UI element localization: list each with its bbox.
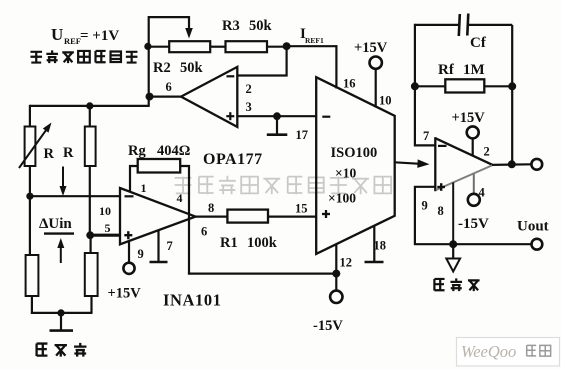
- watermark text 杭州将睿科技有限公司: [175, 176, 392, 194]
- svg-text:6: 6: [201, 225, 207, 239]
- wire pin7 bend: [415, 86, 435, 145]
- terminal output: [531, 159, 542, 170]
- variable resistor arrow: [19, 123, 52, 169]
- ground tick pin7: [150, 261, 168, 264]
- svg-text:ΔUin: ΔUin: [39, 216, 72, 232]
- op-amp OPA177 body: [181, 67, 237, 127]
- node OPA177 output: [146, 93, 154, 101]
- node Rf right junction: [508, 82, 516, 90]
- label pin 4 INA101: [177, 191, 183, 205]
- label +15V INA101: [108, 286, 142, 302]
- U3 minus sign: [438, 145, 447, 147]
- svg-text:INA101: INA101: [163, 291, 222, 310]
- label pin 7 U3: [423, 129, 429, 143]
- svg-text:5: 5: [105, 221, 111, 235]
- resistor R variable body: [25, 127, 36, 167]
- wire bottom rail pin4-pin12: [188, 273, 336, 275]
- label pin 4 U3: [479, 186, 486, 200]
- label pin 16: [343, 77, 356, 91]
- ISO100 output arrow: [395, 159, 430, 168]
- output ground stub: [452, 244, 454, 258]
- svg-text:50k: 50k: [180, 60, 204, 76]
- svg-text:×10: ×10: [335, 166, 356, 181]
- wire left branch lower: [29, 195, 31, 256]
- terminal +15V INA101: [123, 263, 134, 274]
- resistor Rf body: [445, 79, 484, 92]
- svg-text:Uout: Uout: [517, 219, 549, 235]
- wire right branch mid: [89, 166, 91, 236]
- output ground triangle: [446, 259, 460, 272]
- wire to Uout terminal: [453, 243, 532, 245]
- svg-text:100k: 100k: [247, 235, 278, 251]
- ground tick pin18: [365, 261, 384, 264]
- resistor R lower-left body: [26, 255, 39, 296]
- resistor R lower-right body: [85, 253, 98, 296]
- label pin 9 INA101: [138, 247, 144, 261]
- label pin 8 INA101: [208, 201, 214, 215]
- label Uout: [517, 219, 549, 235]
- capacitor Cf plates: [459, 14, 469, 37]
- wire U3 plus input bend: [415, 187, 453, 244]
- wire U3 output: [492, 163, 532, 166]
- svg-text:404Ω: 404Ω: [157, 143, 190, 159]
- wire R2 left lead: [148, 46, 170, 48]
- label R3 50k: [222, 18, 273, 34]
- op-amp U3 body: [435, 137, 492, 191]
- wire bridge tap to pin5: [89, 234, 120, 237]
- svg-text:16: 16: [343, 77, 356, 91]
- node pin3 ground junction: [273, 112, 281, 120]
- label pin 9 U3: [422, 199, 428, 213]
- wire IREF to pin16 horizontal: [286, 45, 338, 47]
- wire pin12 stub: [335, 245, 337, 275]
- svg-text:R: R: [44, 146, 55, 162]
- svg-text:Rf: Rf: [438, 62, 455, 78]
- OPA177 plus sign: [226, 112, 234, 120]
- label Rf 1M: [438, 62, 485, 78]
- label R (upper left): [44, 146, 55, 162]
- wire IREF down to pin2: [286, 45, 288, 76]
- label pin 10 INA101: [99, 204, 111, 218]
- label pin 6 OPA177: [166, 80, 172, 94]
- svg-text:17: 17: [296, 128, 309, 142]
- terminal -15V U3: [468, 194, 480, 206]
- svg-text:1: 1: [141, 181, 147, 195]
- svg-text:8: 8: [208, 201, 214, 215]
- svg-text:Rg: Rg: [128, 143, 146, 159]
- svg-text:15: 15: [295, 202, 308, 216]
- svg-text:12: 12: [340, 256, 353, 270]
- svg-text:+15V: +15V: [108, 286, 142, 302]
- svg-text:R: R: [63, 145, 74, 161]
- resistor R upper-right body: [85, 127, 96, 167]
- svg-text:-15V: -15V: [458, 216, 489, 232]
- wire Rf left lead: [415, 85, 445, 87]
- node A bridge left tap: [26, 193, 33, 200]
- wire R1 to pin15: [268, 216, 317, 218]
- svg-text:ISO100: ISO100: [331, 145, 378, 161]
- svg-text:4: 4: [177, 191, 183, 205]
- svg-text:REF: REF: [64, 36, 81, 46]
- wire right branch lower: [89, 234, 91, 254]
- label pin 12: [340, 256, 353, 270]
- wire INA output: [195, 216, 227, 218]
- label pin 7 INA101: [167, 239, 173, 253]
- label pin 18: [374, 239, 387, 253]
- wire wiper top rail: [149, 16, 189, 18]
- wire pin10 stub: [375, 69, 377, 108]
- label 输入地: [37, 343, 87, 357]
- ΔUin up arrow: [57, 238, 64, 263]
- node bridge top right: [86, 102, 93, 109]
- svg-text:8: 8: [438, 204, 444, 218]
- ground stub input: [60, 313, 62, 330]
- svg-text:3: 3: [246, 100, 252, 114]
- wire pin12 to terminal: [335, 274, 337, 291]
- amp INA101 body: [120, 188, 196, 244]
- current arrow between branches: [60, 167, 67, 197]
- label pin 8 U3: [438, 204, 444, 218]
- label ΔUin: [39, 216, 72, 232]
- wire left branch bottom: [31, 296, 33, 314]
- svg-text:2: 2: [484, 145, 490, 159]
- label IREF1: [300, 26, 324, 45]
- label -15V ISO100: [313, 318, 343, 334]
- label -15V U3: [458, 216, 489, 232]
- label pin 15: [295, 202, 308, 216]
- label x100: [328, 191, 356, 206]
- label +15V U3: [452, 110, 486, 126]
- label INA101: [163, 291, 222, 310]
- node Rf left junction: [411, 82, 419, 90]
- wire output riser: [511, 25, 513, 164]
- node output common junction: [449, 240, 457, 248]
- wire pin9 stub: [128, 241, 130, 263]
- svg-text:Cf: Cf: [470, 35, 487, 51]
- label Cf: [470, 35, 487, 51]
- svg-text:10: 10: [99, 204, 111, 218]
- OPA177 minus sign: [227, 75, 235, 77]
- label 电桥激励传感器: [30, 50, 137, 63]
- svg-text:9: 9: [138, 247, 144, 261]
- wire pin3 to ISO pin17: [237, 115, 316, 117]
- resistor R1 body: [227, 210, 268, 223]
- svg-text:6: 6: [166, 80, 172, 94]
- wire Rg left lead+pin1: [130, 166, 138, 192]
- wire right branch upper: [89, 105, 91, 127]
- svg-text:+15V: +15V: [452, 110, 486, 126]
- node U3 output junction: [508, 160, 516, 168]
- wire OPA177 output: [149, 95, 182, 97]
- wire pin8 riser: [452, 183, 454, 245]
- wire Cf top left: [415, 24, 459, 26]
- svg-text:+15V: +15V: [354, 40, 388, 56]
- potentiometer R2 body: [169, 41, 210, 52]
- ground tick pin3: [267, 133, 288, 136]
- label pin 3 OPA177: [246, 100, 252, 114]
- ground tick input: [50, 329, 74, 332]
- label R1 100k: [220, 235, 278, 251]
- wire R2 wiper stem: [185, 16, 193, 39]
- wire Cf top right: [469, 24, 512, 26]
- node IREF: [283, 42, 291, 50]
- watermark WeeQoo box: [457, 338, 560, 367]
- svg-text:50k: 50k: [249, 18, 273, 34]
- wire pin7 stub: [157, 230, 159, 262]
- U3 plus sign: [437, 183, 445, 191]
- wire Rg right lead+pin4: [180, 166, 189, 275]
- label ISO100: [331, 145, 378, 161]
- ISO100 minus sign: [322, 116, 330, 118]
- label pin 17: [296, 128, 309, 142]
- label pin 5 INA101: [105, 221, 111, 235]
- wire bridge top rail: [30, 105, 149, 107]
- label pin 2 U3: [484, 145, 490, 159]
- wire vertical UREF column: [148, 16, 150, 107]
- wire Rf right lead: [484, 85, 512, 87]
- wire pin2 horizontal: [237, 74, 285, 76]
- node R2 left junction: [144, 43, 151, 50]
- label x10: [335, 166, 356, 181]
- svg-text:7: 7: [167, 239, 173, 253]
- label Rg 404Ω: [128, 143, 190, 159]
- svg-text:= +1V: = +1V: [80, 28, 119, 44]
- label pin 6 INA101: [201, 225, 207, 239]
- ISO100 plus sign: [322, 210, 330, 218]
- wire bridge tap to pin10: [29, 195, 120, 197]
- terminal -15V ISO100: [330, 291, 342, 303]
- label OPA177: [203, 151, 263, 168]
- ground stub pin3: [276, 116, 278, 134]
- svg-text:WeeQoo: WeeQoo: [461, 342, 516, 361]
- svg-text:9: 9: [422, 199, 428, 213]
- svg-text:2: 2: [246, 82, 252, 96]
- label 输出地: [434, 278, 479, 291]
- terminal +15V ISO100: [370, 57, 382, 69]
- wire pin18 stub: [373, 226, 375, 261]
- terminal Uout: [532, 239, 543, 250]
- wire right branch bottom: [90, 296, 92, 314]
- svg-text:R2: R2: [153, 60, 171, 76]
- node B bridge right tap: [86, 231, 94, 239]
- wire pin16 vertical: [335, 45, 337, 88]
- INA101 plus sign: [124, 231, 132, 239]
- label pin 1 INA101: [141, 181, 147, 195]
- svg-text:R3: R3: [222, 18, 240, 34]
- wire R3 right lead: [267, 46, 287, 48]
- svg-text:1M: 1M: [463, 62, 485, 78]
- node pin12 junction: [332, 270, 340, 278]
- svg-text:×100: ×100: [328, 191, 356, 206]
- svg-text:10: 10: [379, 94, 392, 108]
- resistor R3 body: [226, 41, 268, 52]
- label R2 50k: [153, 60, 204, 76]
- wire R2-R3 lead: [210, 46, 225, 48]
- wire left branch upper: [29, 105, 31, 127]
- svg-text:REF1: REF1: [305, 36, 324, 45]
- label +15V ISO100: [354, 40, 388, 56]
- wire bridge bottom rail: [31, 312, 92, 314]
- wire left branch mid: [29, 166, 31, 197]
- label UREF = +1V: [51, 25, 119, 46]
- label pin 10 ISO100: [379, 94, 392, 108]
- svg-text:U: U: [51, 25, 63, 44]
- wire U3 +15V stub: [472, 138, 474, 156]
- wire Cf left riser: [414, 24, 416, 87]
- svg-text:R1: R1: [220, 235, 238, 251]
- label pin 2 OPA177: [246, 82, 252, 96]
- terminal +15V U3: [467, 126, 479, 138]
- INA101 minus sign: [125, 195, 134, 197]
- wire U3 pin4 stub: [473, 174, 475, 194]
- svg-text:7: 7: [423, 129, 429, 143]
- node input-ground junction: [57, 309, 64, 316]
- iso-amp ISO100 body: [316, 77, 395, 254]
- resistor Rg body: [138, 159, 181, 173]
- label R (upper right): [63, 145, 74, 161]
- U3 bottom edge shading: [436, 165, 492, 190]
- svg-text:-15V: -15V: [313, 318, 343, 334]
- ΔUin bar: [44, 232, 74, 234]
- svg-text:OPA177: OPA177: [203, 151, 263, 168]
